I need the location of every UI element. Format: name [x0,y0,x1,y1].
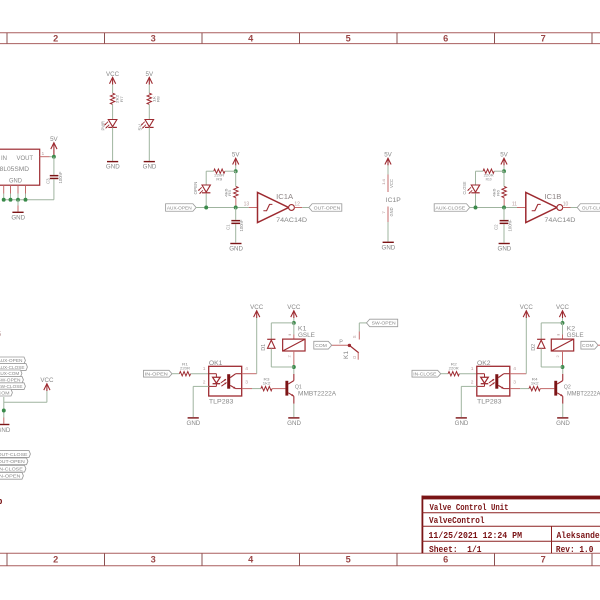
net flag AUX-OPEN [166,204,197,212]
relay coil K1 GSLE [283,323,316,367]
svg-text:OUT-OPEN: OUT-OPEN [0,459,25,464]
svg-text:Q2: Q2 [564,384,571,390]
wire VCC to relay junction [562,318,564,323]
svg-text:D2: D2 [531,344,537,351]
pin 1 of OK1 [203,366,206,372]
svg-text:K1: K1 [344,350,350,359]
supply 5V for IC1A pull-up [232,152,240,166]
svg-text:1: 1 [42,151,45,157]
frame bottom band [0,553,600,566]
svg-text:4: 4 [245,366,248,372]
wire output IC1A [302,207,309,209]
wire Q1 emitter to ground [293,396,295,417]
svg-text:AUX-OPEN: AUX-OPEN [167,205,192,210]
svg-text:6: 6 [443,555,448,565]
svg-text:VCC: VCC [389,179,394,188]
ground IC1P [382,242,396,252]
svg-text:Aleksander: Aleksander [557,530,600,541]
resistor R9 220R [206,169,236,182]
wire 5V to R8 [148,85,150,94]
svg-text:AUX-COM: AUX-COM [0,371,20,376]
svg-text:GND: GND [0,427,11,434]
svg-text:TLP283: TLP283 [209,399,234,406]
svg-text:5: 5 [346,555,351,565]
svg-text:GND: GND [187,420,201,427]
svg-text:IC1B: IC1B [544,192,561,201]
ground Q2 emitter [556,417,570,427]
supply VCC OK2 collector [520,304,534,318]
net flag AUX-CLOSE [434,204,470,212]
svg-text:OUT-OPEN: OUT-OPEN [314,205,341,210]
pin 3 of OK1 [242,379,252,388]
junction left ground bus [2,409,6,413]
supply 5V for IC1B pull-up [500,152,508,166]
relay coil K2 GSLE [551,323,584,367]
wire VCC to connector [4,391,47,418]
svg-text:6: 6 [443,34,448,44]
net flag OUT-CLOSE (connector) [0,451,30,458]
capacitor C2 100nF [494,208,513,232]
svg-text:CLOSE: CLOSE [462,181,467,194]
ground under C1 [229,243,243,253]
wire VCC to OK2 pin4 [525,318,527,374]
ground OK2 input side [455,417,469,427]
svg-text:1k2: 1k2 [531,380,540,385]
junction relay K1 top [292,321,296,325]
wire regulator gnd pins to rail [4,194,26,200]
wire down to LED OPEN [205,171,207,185]
wire VCC to OK1 pin4 [256,318,258,374]
svg-text:GND: GND [229,246,243,253]
svg-text:100nF: 100nF [239,219,244,231]
wire Q2 emitter to ground [562,396,564,417]
net flag IN-CLOSE [412,370,441,377]
wire C3 to ground rail [4,179,54,200]
svg-text:220R: 220R [180,366,190,371]
svg-text:2: 2 [53,555,58,565]
supply VCC left area [40,377,54,391]
svg-text:5: 5 [346,34,351,44]
supply 5V at regulator output [50,136,58,157]
svg-text:4: 4 [513,366,516,372]
svg-text:1k2: 1k2 [263,380,272,385]
svg-text:5V: 5V [384,152,392,159]
junction input node IC1A [234,206,238,210]
pin 10 of IC1B [563,201,571,207]
svg-text:78L05SMD: 78L05SMD [0,166,29,173]
svg-text:1: 1 [471,366,474,372]
net flag AUX-CLOSE (connector) [0,364,27,371]
svg-text:Q1: Q1 [295,384,302,390]
inverter gate IC1B 74AC14D [526,192,576,224]
svg-text:AUX-OPEN: AUX-OPEN [0,358,22,363]
svg-text:IC1P: IC1P [386,197,402,204]
wire OK1 pin2 to ground [192,386,194,417]
svg-text:74AC14D: 74AC14D [544,217,575,224]
resistor R1 220R [172,362,209,376]
wire OK2 pin2 to ground [460,386,462,417]
power gate IC1P [381,152,401,222]
svg-text:P: P [339,340,343,346]
ground left connector [0,418,11,435]
optocoupler OK2 TLP283 [477,360,510,406]
net flag AUX-COM (connector) [0,370,22,377]
svg-text:7: 7 [541,555,546,565]
wire VCC to R7 [112,85,114,94]
wire output IC1B [571,207,578,209]
svg-text:R9: R9 [216,177,223,182]
wire down to LED CLOSE [475,171,477,185]
supply VCC indicator branch [106,71,120,85]
wire Q2 collector [562,367,564,381]
diode D2 flyback [531,323,563,367]
regulator IC2 78L05SMD [0,149,40,185]
svg-text:SW-CLOSE: SW-CLOSE [0,384,23,389]
svg-text:SW-OPEN: SW-OPEN [372,321,396,326]
svg-text:C1: C1 [225,224,230,230]
svg-text:13: 13 [244,201,250,207]
resistor R4 1k2 [520,376,540,390]
wire K1 S contact to SW-OPEN [359,323,366,332]
svg-text:GSLE: GSLE [298,332,316,339]
frame row letter (cut off at left edge) [0,330,3,507]
supply VCC relay K2 [556,304,570,318]
svg-text:C2: C2 [494,224,499,230]
svg-text:PWR: PWR [101,121,106,131]
supply VCC OK1 collector [250,304,264,318]
svg-text:Valve Control Unit: Valve Control Unit [430,502,509,513]
wire IC1P gnd pin [387,222,389,242]
svg-text:100nF: 100nF [58,171,63,183]
wire input net IC1B [469,207,517,209]
svg-text:Rev: 1.0: Rev: 1.0 [556,544,594,555]
svg-text:GND: GND [9,178,23,184]
svg-text:S: S [352,335,357,338]
svg-text:OK2: OK2 [477,360,491,367]
svg-text:IN-OPEN: IN-OPEN [145,372,168,377]
transistor Q2 MMBT2222A [554,381,600,398]
svg-text:11: 11 [512,201,517,207]
svg-text:GND: GND [498,246,512,253]
junction 5V rail IC1A [234,169,238,173]
transistor Q1 MMBT2222A [285,381,336,398]
svg-text:2: 2 [471,379,474,385]
pin 4 of OK1 [242,366,257,374]
svg-text:IN: IN [1,156,7,162]
supply VCC relay K1 [287,304,301,318]
net flag COM K2 [581,341,600,349]
svg-text:D1: D1 [261,344,267,351]
svg-text:OPEN: OPEN [193,182,198,195]
wire LED PWR to ground [112,127,114,160]
capacitor C1 100nF [225,208,244,232]
svg-text:R7: R7 [119,95,124,102]
net flag IN-OPEN (connector) [0,472,23,479]
net flag SW-CLOSE (connector) [0,383,25,390]
LED OPEN [193,182,211,195]
svg-text:5V: 5V [500,152,508,159]
net flag SW-OPEN K1 [367,319,398,327]
net flag COM (connector) [0,389,12,396]
LED 5V indicator [137,120,153,131]
ground OK1 input side [187,417,201,427]
svg-text:IN-OPEN: IN-OPEN [0,474,21,479]
wire LED 5V to ground [148,127,150,160]
net flag OUT-OPEN (connector) [0,458,28,465]
ground indicator branch 2 [143,161,157,171]
pin 1 of OK2 [471,366,474,372]
resistor R10 220R [476,169,505,182]
diode D1 flyback [261,323,294,367]
svg-text:3: 3 [151,34,156,44]
svg-text:12: 12 [294,201,300,207]
pin 11 of IC1B [512,201,526,207]
junction input node left IC1B [474,206,478,210]
svg-text:R8: R8 [156,95,161,102]
svg-text:14: 14 [381,178,386,185]
junction input node left IC1A [204,206,208,210]
wire C1 to ground [235,224,237,243]
svg-text:ValveControl: ValveControl [429,515,485,526]
pin 2 of OK1 [193,379,209,386]
pin 12 of IC1A [294,201,302,207]
resistor R3 1k2 [252,376,272,390]
wire input net IC1A [196,207,249,209]
svg-text:5V: 5V [232,152,240,159]
wire C2 to ground [503,224,505,243]
ground under C2 [498,243,512,253]
svg-text:GND: GND [455,420,469,427]
wire 5V node down to C3 [53,157,55,175]
junction input node IC1B [502,206,506,210]
wire R8 to LED 5V [148,104,150,119]
svg-text:AUX-CLOSE: AUX-CLOSE [435,205,465,210]
wire Q1 collector [293,367,295,381]
svg-text:GSLE: GSLE [567,332,585,339]
svg-text:4: 4 [248,555,254,565]
pin 3 of OK2 [510,379,520,388]
svg-text:IC1A: IC1A [276,192,293,201]
net flag COM K1 [314,341,332,349]
junction relay K1 bottom [292,365,296,369]
svg-text:COM: COM [0,390,10,395]
wire R3 to Q1 base [272,388,285,390]
pin 4 of OK2 [510,366,527,374]
svg-text:10: 10 [563,201,569,207]
svg-text:GND: GND [389,208,394,217]
LED CLOSE [462,181,480,194]
net flag IN-CLOSE (connector) [0,465,26,472]
junction regulator output [52,155,56,159]
svg-text:11/25/2021 12:24 PM: 11/25/2021 12:24 PM [429,530,523,541]
resistor R6 4k7 pull-up [492,171,507,207]
ground indicator branch 1 [106,161,120,171]
svg-text:SW-OPEN: SW-OPEN [0,378,21,383]
wire LED OPEN to input node [205,193,207,207]
svg-text:7: 7 [541,34,546,44]
svg-text:Sheet: 1/1: Sheet: 1/1 [429,544,482,555]
ground under regulator [11,200,25,222]
svg-text:R5: R5 [227,189,232,196]
svg-text:VOUT: VOUT [17,156,34,162]
wire 5V to rail junction IC1B [503,165,505,171]
svg-text:OK1: OK1 [209,360,223,367]
LED PWR [101,120,117,131]
wire R7 to LED PWR [112,104,114,119]
svg-text:1: 1 [203,366,206,372]
svg-text:74AC14D: 74AC14D [276,217,307,224]
resistor R7 2k2 [110,93,123,104]
junction relay K2 top [561,321,565,325]
relay contact K1 [331,332,359,360]
wire LED CLOSE to input node [475,193,477,207]
junctions on regulator ground rail [2,198,28,202]
svg-text:100nF: 100nF [507,219,512,231]
svg-text:IN-CLOSE: IN-CLOSE [0,467,23,472]
net flag SW-OPEN (connector) [0,376,23,383]
net flag OUT-OPEN [309,204,342,212]
svg-text:2: 2 [53,34,58,44]
resistor R5 4k7 pull-up [223,171,238,207]
ground Q1 emitter [287,417,301,427]
capacitor C3 100nF [45,171,63,184]
resistor R8 1k [147,93,160,104]
resistor R2 220R [441,362,477,376]
svg-text:220R: 220R [449,366,459,371]
svg-text:R6: R6 [495,189,500,196]
svg-text:TLP283: TLP283 [477,399,502,406]
svg-text:3: 3 [513,379,516,385]
svg-text:MMBT2222A: MMBT2222A [567,392,600,398]
svg-text:4: 4 [248,34,254,44]
junction 5V rail IC1B [502,169,506,173]
svg-text:AUX-CLOSE: AUX-CLOSE [0,365,25,370]
svg-text:5V: 5V [50,136,58,143]
svg-text:2: 2 [203,379,206,385]
wire regulator VOUT to 5V node [50,156,54,158]
frame top band [0,33,600,44]
svg-text:MMBT2222A: MMBT2222A [298,392,336,398]
supply 5V indicator branch [146,71,154,85]
wire 5V to rail junction IC1A [235,165,237,171]
net flag IN-OPEN [144,370,173,377]
svg-text:GND: GND [287,420,301,427]
svg-text:IN-CLOSE: IN-CLOSE [413,372,436,377]
net flag OUT-CLOSE [577,204,600,212]
svg-text:GND: GND [382,244,396,251]
title block [422,496,600,554]
svg-text:GND: GND [143,164,157,171]
svg-text:5V: 5V [137,124,142,131]
svg-text:5V: 5V [146,71,154,78]
svg-text:C3: C3 [45,178,50,184]
inverter gate IC1A 74AC14D [258,192,308,224]
pin 2 of OK2 [461,379,477,386]
svg-text:OUT-CLOSE: OUT-CLOSE [0,452,28,457]
optocoupler OK1 TLP283 [209,360,242,406]
wire R4 to Q2 base [540,388,554,390]
svg-text:GND: GND [11,214,25,221]
net flag AUX-OPEN (connector) [0,357,25,364]
svg-text:COM: COM [582,343,594,348]
svg-text:OUT-CLOSE: OUT-CLOSE [582,205,600,210]
svg-text:COM: COM [315,343,327,348]
regulator GND pin stubs [4,185,26,193]
svg-text:GND: GND [556,420,570,427]
wire VCC to relay junction [293,318,295,323]
svg-text:3: 3 [151,555,156,565]
svg-text:3: 3 [245,379,248,385]
pin 13 of IC1A [244,201,258,207]
junction relay K2 bottom [561,365,565,369]
svg-text:GND: GND [106,164,120,171]
svg-text:R10: R10 [486,177,493,182]
pin 1 VOUT of IC2 [40,151,50,157]
